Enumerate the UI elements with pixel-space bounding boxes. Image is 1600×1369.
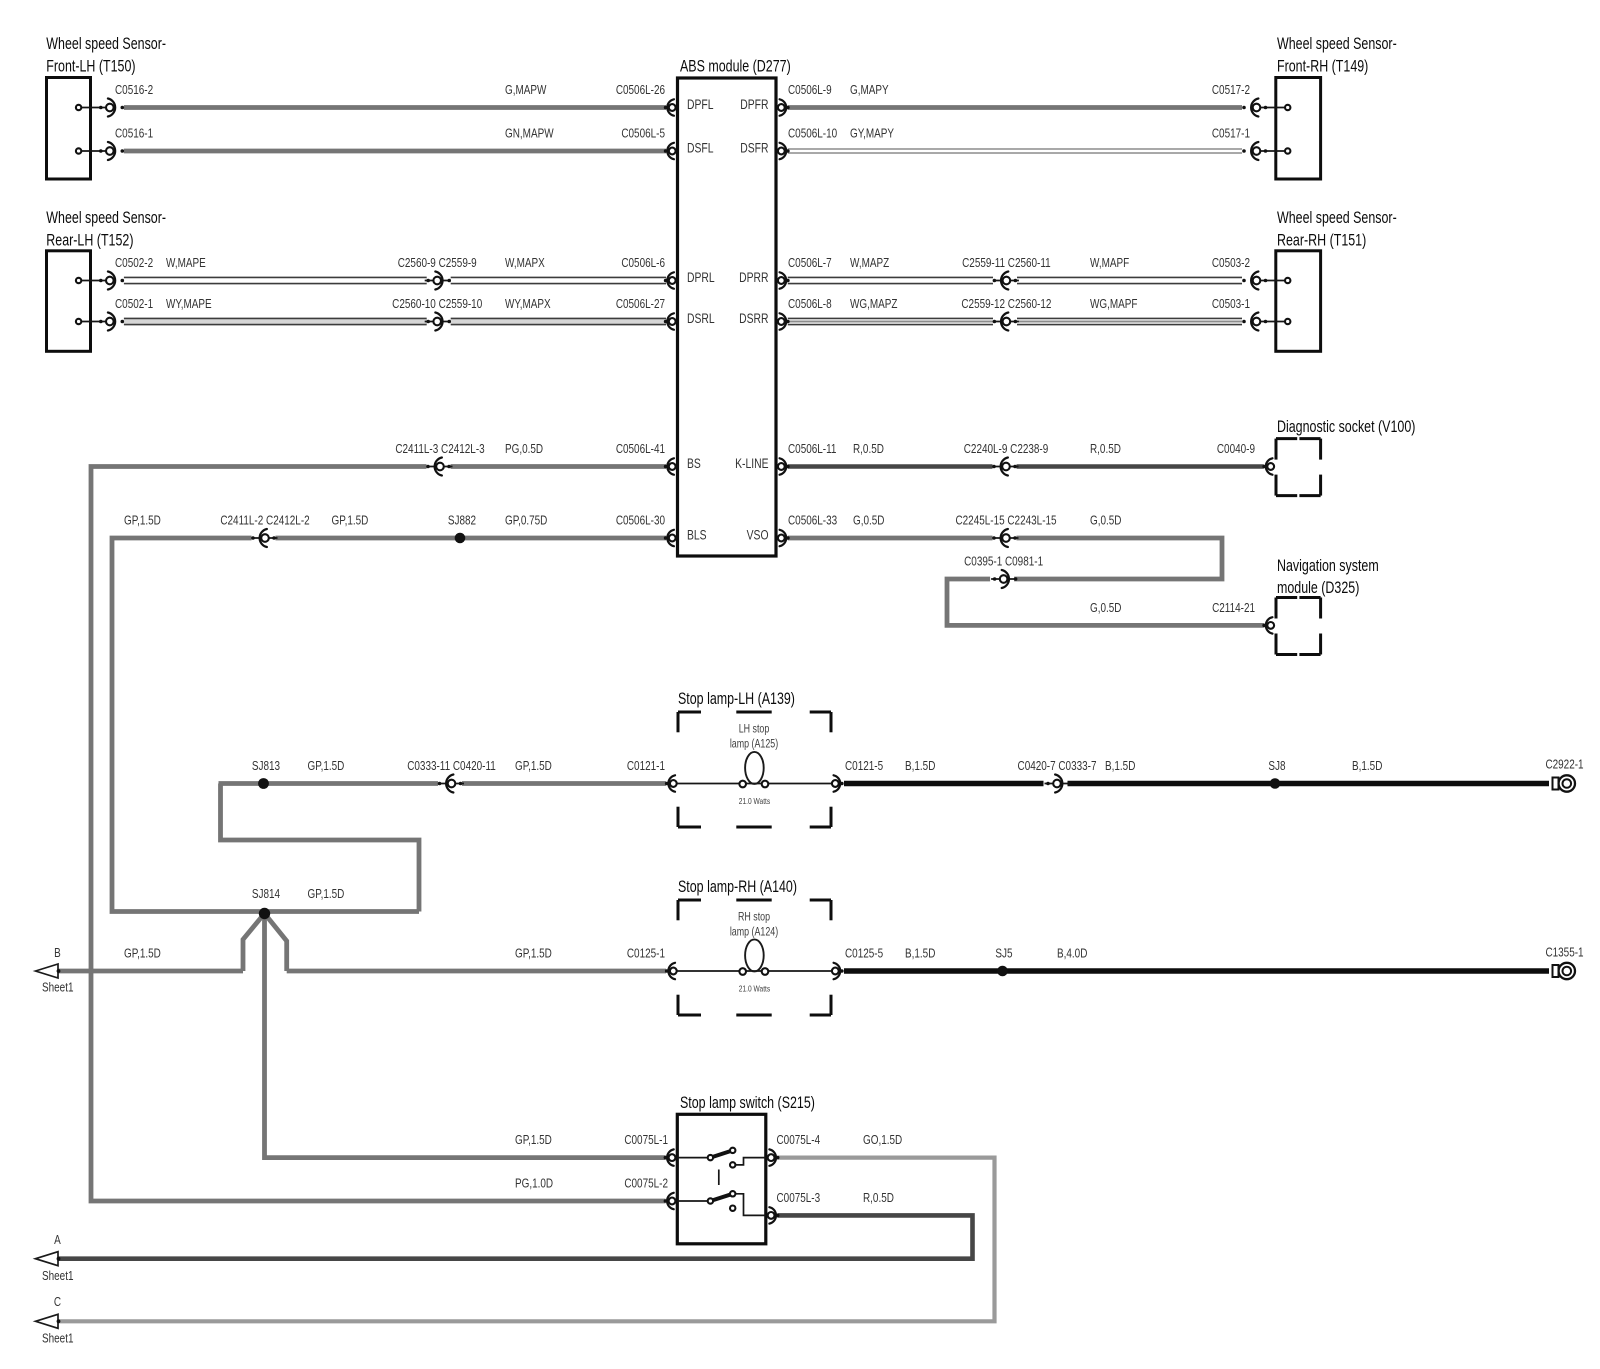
svg-text:DSRR: DSRR <box>739 310 768 326</box>
svg-text:Stop lamp switch (S215): Stop lamp switch (S215) <box>680 1094 815 1112</box>
svg-text:C2922-1: C2922-1 <box>1545 758 1583 771</box>
svg-text:Rear-LH (T152): Rear-LH (T152) <box>46 232 133 250</box>
connector C0333-11 C0420-11 <box>439 783 464 785</box>
svg-text:Wheel speed Sensor-: Wheel speed Sensor- <box>1277 35 1397 53</box>
svg-text:G,0.5D: G,0.5D <box>1090 514 1121 527</box>
connector C2560-10 C2559-10 <box>425 321 450 323</box>
connector C0121-5 at LH stop lamp <box>840 782 844 786</box>
connector C2411L-2 C2412L-2 <box>253 537 278 539</box>
switch mechanical link <box>718 1170 720 1186</box>
svg-text:C0506L-8: C0506L-8 <box>788 298 832 311</box>
svg-text:C1355-1: C1355-1 <box>1545 946 1583 959</box>
dashed box Diagnostic socket V100 <box>1276 437 1297 440</box>
svg-text:C0503-2: C0503-2 <box>1212 257 1250 270</box>
svg-text:A: A <box>54 1234 61 1247</box>
svg-text:C2560-10 C2559-10: C2560-10 C2559-10 <box>392 298 482 311</box>
svg-text:RH stop: RH stop <box>738 910 770 924</box>
connector C0506L-26 at ABS module pin DPFL <box>664 106 668 110</box>
svg-text:W,MAPE: W,MAPE <box>166 257 206 270</box>
sheet arrow B <box>36 964 59 978</box>
wire GN,MAPW front-LH DSFL <box>124 149 666 154</box>
connector C2114-21 at navigation module <box>1262 624 1266 628</box>
svg-text:lamp (A124): lamp (A124) <box>730 925 778 939</box>
sheet arrow A <box>36 1252 59 1266</box>
svg-text:K-LINE: K-LINE <box>735 455 768 471</box>
svg-text:C0517-1: C0517-1 <box>1212 127 1250 140</box>
wire W,MAPZ DPRR segment 1 <box>788 277 993 285</box>
svg-text:C0506L-41: C0506L-41 <box>616 443 665 456</box>
svg-text:SJ5: SJ5 <box>995 947 1012 960</box>
lamp symbol RH stop lamp A124 <box>745 939 764 971</box>
svg-text:B,1.5D: B,1.5D <box>1352 760 1382 773</box>
pin C0503-2 rear-RH <box>1254 280 1288 282</box>
svg-text:C0502-2: C0502-2 <box>115 257 153 270</box>
svg-text:C0506L-30: C0506L-30 <box>616 514 665 527</box>
component box Wheel speed Sensor Front-RH T149 <box>1276 78 1321 180</box>
component box Wheel speed Sensor Rear-RH T151 <box>1276 251 1321 351</box>
svg-text:BS: BS <box>687 455 701 471</box>
wire G,MAPW front-LH DPFL <box>124 105 666 110</box>
svg-text:C0506L-27: C0506L-27 <box>616 298 665 311</box>
wire GP,1.5D BLS segment left + vertical to SJ814 row <box>112 538 419 912</box>
connector C0420-7 C0333-7 <box>1045 783 1070 785</box>
connector C0506L-27 at ABS module pin DSRL <box>664 320 668 324</box>
svg-text:Stop lamp-RH (A140): Stop lamp-RH (A140) <box>678 878 797 896</box>
svg-text:C0516-1: C0516-1 <box>115 127 153 140</box>
svg-text:PG,1.0D: PG,1.0D <box>515 1177 553 1190</box>
svg-text:WG,MAPF: WG,MAPF <box>1090 298 1137 311</box>
dashed box Stop lamp-LH A139 <box>678 711 701 714</box>
wire R,0.5D K-LINE segment 1 <box>788 464 993 469</box>
wire GP,1.5D sheet-B row left segment <box>58 969 243 974</box>
wire PG,0.5D BS segment right <box>451 464 667 469</box>
thin wire through RH stop lamp <box>677 970 832 972</box>
svg-text:Wheel speed Sensor-: Wheel speed Sensor- <box>46 35 166 53</box>
svg-text:DPFL: DPFL <box>687 96 714 112</box>
svg-text:G,MAPY: G,MAPY <box>850 84 889 97</box>
splice SJ814 <box>259 908 270 919</box>
switch contact upper (brake switch pole 1) <box>677 1157 707 1159</box>
svg-text:BLS: BLS <box>687 527 707 543</box>
wire GP,1.5D to LH stop lamp segment 2 <box>462 781 666 786</box>
svg-text:DPRL: DPRL <box>687 269 715 285</box>
svg-text:C0506L-33: C0506L-33 <box>788 514 837 527</box>
connector C0125-5 at RH stop lamp <box>840 969 844 973</box>
component box Stop lamp switch S215 <box>677 1114 766 1244</box>
svg-text:GP,1.5D: GP,1.5D <box>515 947 552 960</box>
connector C0125-1 at RH stop lamp <box>665 969 669 973</box>
wire B,1.5D LH stop lamp output segment 2 to eyelet C2922-1 <box>1068 781 1550 786</box>
svg-text:C0506L-5: C0506L-5 <box>621 127 665 140</box>
wire WY,MAPX rear-LH segment 2 <box>451 318 666 326</box>
connector C0506L-10 at ABS module pin DSFR <box>786 149 790 153</box>
svg-text:C0121-1: C0121-1 <box>627 760 665 773</box>
svg-text:WG,MAPZ: WG,MAPZ <box>850 298 897 311</box>
wire PG BS segment left + vertical + PG,1.0D to switch C0075L-2 <box>91 467 666 1202</box>
svg-text:G,0.5D: G,0.5D <box>853 514 884 527</box>
svg-text:DPFR: DPFR <box>740 96 768 112</box>
svg-text:DSFL: DSFL <box>687 140 714 156</box>
connector C0395-1 C0981-1 <box>991 578 1016 580</box>
svg-text:C0075L-1: C0075L-1 <box>624 1134 668 1147</box>
svg-text:B,1.5D: B,1.5D <box>1105 760 1135 773</box>
svg-text:WY,MAPE: WY,MAPE <box>166 298 212 311</box>
svg-text:R,0.5D: R,0.5D <box>853 443 884 456</box>
connector C2240L-9 C2238-9 <box>994 466 1019 468</box>
svg-text:Sheet1: Sheet1 <box>42 981 73 994</box>
wire W,MAPX rear-LH segment 2 <box>451 277 666 285</box>
wire G,0.5D VSO segment 1 <box>788 536 993 541</box>
svg-text:W,MAPZ: W,MAPZ <box>850 257 889 270</box>
svg-text:DPRR: DPRR <box>739 269 768 285</box>
svg-text:Sheet1: Sheet1 <box>42 1270 73 1283</box>
svg-text:C0125-5: C0125-5 <box>845 947 883 960</box>
svg-text:B,1.5D: B,1.5D <box>905 760 935 773</box>
svg-text:GP,0.75D: GP,0.75D <box>505 514 547 527</box>
wire G,0.5D VSO segment 2 with U-turn <box>1014 538 1222 579</box>
svg-text:SJ8: SJ8 <box>1268 760 1285 773</box>
svg-text:VSO: VSO <box>747 527 769 543</box>
eyelet terminal C1355-1 <box>1553 965 1559 977</box>
svg-text:Wheel speed Sensor-: Wheel speed Sensor- <box>1277 210 1397 228</box>
svg-text:LH stop: LH stop <box>739 722 770 736</box>
svg-text:B,1.5D: B,1.5D <box>905 947 935 960</box>
svg-text:C2245L-15 C2243L-15: C2245L-15 C2243L-15 <box>955 514 1056 527</box>
wire G,0.5D VSO segment 3 to navigation module <box>947 579 1264 625</box>
connector C2411L-3 C2412L-3 <box>428 466 453 468</box>
connector C0075L-2 at switch <box>664 1199 668 1203</box>
wire B RH stop lamp output to eyelet C1355-1 <box>844 968 1549 973</box>
svg-text:Navigation system: Navigation system <box>1277 557 1379 575</box>
svg-text:C0502-1: C0502-1 <box>115 298 153 311</box>
svg-text:C2559-12 C2560-12: C2559-12 C2560-12 <box>961 298 1051 311</box>
eyelet terminal C2922-1 <box>1553 778 1559 790</box>
svg-text:W,MAPF: W,MAPF <box>1090 257 1129 270</box>
component box Wheel speed Sensor Front-LH T150 <box>47 78 91 180</box>
svg-text:ABS module (D277): ABS module (D277) <box>680 58 791 76</box>
svg-text:GP,1.5D: GP,1.5D <box>124 947 161 960</box>
connector C0506L-30 at ABS module pin BLS <box>664 536 668 540</box>
wire GP,1.5D SJ813 loop down to SJ814 row <box>221 784 420 912</box>
svg-text:C0040-9: C0040-9 <box>1217 443 1255 456</box>
dashed box Navigation system module D325 <box>1276 596 1297 599</box>
switch contact lower (brake switch pole 2) <box>677 1200 707 1202</box>
svg-text:Stop lamp-LH (A139): Stop lamp-LH (A139) <box>678 690 795 708</box>
svg-text:GP,1.5D: GP,1.5D <box>308 760 345 773</box>
wire GP,1.5D sheet-B row right segment to C0125-1 <box>287 969 666 974</box>
svg-text:GN,MAPW: GN,MAPW <box>505 127 554 140</box>
svg-text:C2559-11 C2560-11: C2559-11 C2560-11 <box>962 257 1051 270</box>
connector C2245L-15 C2243L-15 <box>994 537 1019 539</box>
wire R,0.5D K-LINE segment 2 to diagnostic socket <box>1017 464 1264 469</box>
svg-text:SJ814: SJ814 <box>252 888 281 901</box>
thin wire through LH stop lamp <box>677 783 832 785</box>
svg-text:Sheet1: Sheet1 <box>42 1332 73 1345</box>
component box Wheel speed Sensor Rear-LH T152 <box>47 251 91 351</box>
connector C0506L-8 at ABS module pin DSRR <box>786 320 790 324</box>
svg-text:Front-LH (T150): Front-LH (T150) <box>46 58 135 76</box>
svg-text:C0506L-11: C0506L-11 <box>788 443 836 456</box>
svg-text:21.0 Watts: 21.0 Watts <box>739 796 771 806</box>
wire GP SJ814 left branch to sheet-B row <box>243 914 265 972</box>
wire GP,1.5D BLS segment right <box>276 536 667 541</box>
connector C0075L-3 at switch <box>776 1214 780 1218</box>
connector C0506L-41 at ABS module pin BS <box>664 465 668 469</box>
svg-text:C2411L-2 C2412L-2: C2411L-2 C2412L-2 <box>220 514 309 527</box>
wire W,MAPF DPRR segment 2 <box>1017 277 1242 285</box>
wire WG,MAPF DSRR segment 2 <box>1017 318 1242 326</box>
svg-text:C2560-9 C2559-9: C2560-9 C2559-9 <box>398 257 477 270</box>
pin C0517-2 front-RH <box>1254 107 1288 109</box>
wire GP,1.5D to LH stop lamp segment 1 <box>219 781 439 786</box>
wire B,1.5D LH stop lamp output segment 1 <box>844 781 1044 786</box>
lamp symbol LH stop lamp A125 <box>745 752 764 784</box>
connector C0506L-9 at ABS module pin DPFR <box>786 106 790 110</box>
svg-text:C0075L-3: C0075L-3 <box>777 1192 821 1205</box>
svg-text:GP,1.5D: GP,1.5D <box>124 514 161 527</box>
svg-text:C0395-1 C0981-1: C0395-1 C0981-1 <box>964 555 1043 568</box>
svg-text:GO,1.5D: GO,1.5D <box>863 1134 902 1147</box>
svg-text:R,0.5D: R,0.5D <box>863 1192 894 1205</box>
pin C0517-1 front-RH <box>1254 150 1288 152</box>
pin C0502-1 rear-LH <box>79 321 113 323</box>
svg-text:W,MAPX: W,MAPX <box>505 257 545 270</box>
wire GY,MAPY DSFR <box>788 148 1242 154</box>
svg-text:lamp (A125): lamp (A125) <box>730 737 778 751</box>
connector C0040-9 at diagnostic socket <box>1262 465 1266 469</box>
svg-text:C0121-5: C0121-5 <box>845 760 883 773</box>
svg-text:C0516-2: C0516-2 <box>115 84 153 97</box>
svg-text:Wheel speed Sensor-: Wheel speed Sensor- <box>46 210 166 228</box>
svg-text:SJ882: SJ882 <box>448 514 476 527</box>
dashed box Stop lamp-RH A140 <box>678 899 701 902</box>
pin C0503-1 rear-RH <box>1254 321 1288 323</box>
connector C0506L-7 at ABS module pin DPRR <box>786 279 790 283</box>
splice SJ882 <box>455 533 466 544</box>
splice SJ8 <box>1270 778 1281 789</box>
svg-text:Diagnostic socket (V100): Diagnostic socket (V100) <box>1277 418 1415 436</box>
connector C2559-11 C2560-11 <box>994 280 1019 282</box>
svg-text:C0333-11 C0420-11: C0333-11 C0420-11 <box>407 760 496 773</box>
wire W,MAPE rear-LH segment 1 <box>124 277 427 285</box>
svg-text:SJ813: SJ813 <box>252 760 280 773</box>
svg-text:DSFR: DSFR <box>740 140 768 156</box>
wire G,MAPY DPFR <box>788 105 1242 110</box>
svg-text:21.0 Watts: 21.0 Watts <box>739 984 771 994</box>
svg-text:C0506L-10: C0506L-10 <box>788 127 837 140</box>
svg-text:C0503-1: C0503-1 <box>1212 298 1250 311</box>
svg-text:C0517-2: C0517-2 <box>1212 84 1250 97</box>
svg-text:C0506L-26: C0506L-26 <box>616 84 665 97</box>
component box ABS module D277 <box>678 78 777 556</box>
svg-text:Rear-RH (T151): Rear-RH (T151) <box>1277 232 1366 250</box>
pin C0502-2 rear-LH <box>79 280 113 282</box>
wire R,0.5D from C0075L-3 down to sheet-A row <box>58 1215 973 1258</box>
splice SJ5 <box>997 966 1008 977</box>
svg-text:C2114-21: C2114-21 <box>1212 602 1255 615</box>
svg-text:B,4.0D: B,4.0D <box>1057 947 1087 960</box>
wire GP,1.5D SJ814 middle branch down to switch C0075L-1 <box>265 914 666 1158</box>
svg-text:PG,0.5D: PG,0.5D <box>505 443 543 456</box>
svg-text:G,MAPW: G,MAPW <box>505 84 546 97</box>
pin C0516-2 front-LH <box>79 107 113 109</box>
svg-text:GP,1.5D: GP,1.5D <box>332 514 369 527</box>
svg-text:DSRL: DSRL <box>687 310 715 326</box>
connector C0075L-4 at switch <box>776 1156 780 1160</box>
connector C0506L-5 at ABS module pin DSFL <box>664 149 668 153</box>
connector C0506L-11 at ABS module pin K-LINE <box>786 465 790 469</box>
svg-text:C0506L-9: C0506L-9 <box>788 84 832 97</box>
connector C2559-12 C2560-12 <box>994 321 1019 323</box>
svg-text:GP,1.5D: GP,1.5D <box>515 1134 552 1147</box>
svg-text:B: B <box>54 947 61 960</box>
wire GP SJ814 right branch to RH stop lamp row <box>265 914 287 972</box>
svg-text:GP,1.5D: GP,1.5D <box>308 888 345 901</box>
svg-text:R,0.5D: R,0.5D <box>1090 443 1121 456</box>
svg-text:C0075L-2: C0075L-2 <box>624 1177 668 1190</box>
splice SJ813 <box>258 778 269 789</box>
svg-text:C0125-1: C0125-1 <box>627 947 665 960</box>
svg-text:G,0.5D: G,0.5D <box>1090 602 1121 615</box>
svg-text:C2240L-9 C2238-9: C2240L-9 C2238-9 <box>964 443 1049 456</box>
svg-text:WY,MAPX: WY,MAPX <box>505 298 551 311</box>
connector C2560-9 C2559-9 <box>425 280 450 282</box>
wire WG,MAPZ DSRR segment 1 <box>788 318 993 326</box>
connector C0506L-6 at ABS module pin DPRL <box>664 279 668 283</box>
svg-text:C0506L-7: C0506L-7 <box>788 257 832 270</box>
svg-text:C0506L-6: C0506L-6 <box>621 257 665 270</box>
wire WY,MAPE rear-LH segment 1 <box>124 318 427 326</box>
svg-text:C: C <box>54 1296 61 1309</box>
connector C0506L-33 at ABS module pin VSO <box>786 536 790 540</box>
svg-text:GY,MAPY: GY,MAPY <box>850 127 894 140</box>
svg-text:C0420-7 C0333-7: C0420-7 C0333-7 <box>1018 760 1097 773</box>
svg-text:module (D325): module (D325) <box>1277 579 1359 597</box>
wire GO,1.5D from C0075L-4 down to sheet-C row <box>58 1158 995 1322</box>
svg-text:GP,1.5D: GP,1.5D <box>515 760 552 773</box>
svg-text:Front-RH (T149): Front-RH (T149) <box>1277 58 1368 76</box>
svg-text:C2411L-3 C2412L-3: C2411L-3 C2412L-3 <box>395 443 484 456</box>
sheet arrow C <box>36 1314 59 1328</box>
pin C0516-1 front-LH <box>79 150 113 152</box>
svg-text:C0075L-4: C0075L-4 <box>777 1134 821 1147</box>
connector C0075L-1 at switch <box>664 1156 668 1160</box>
connector C0121-1 at LH stop lamp <box>665 782 669 786</box>
